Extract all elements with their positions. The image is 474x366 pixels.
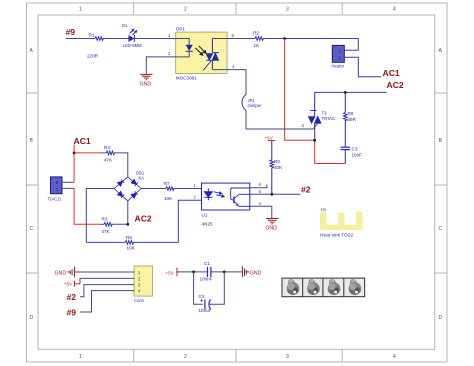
svg-text:KA: KA [139, 176, 145, 181]
wire R7 to U1 pin1 [173, 188, 208, 190]
svg-text:4: 4 [393, 7, 396, 13]
wire heater pin1 to AC1 [344, 57, 381, 76]
svg-text:T1: T1 [322, 111, 328, 116]
svg-text:B: B [439, 138, 443, 144]
connector Conn [134, 266, 152, 303]
wire conn pin3 to #2 [80, 285, 134, 297]
svg-text:Conn: Conn [134, 298, 145, 303]
svg-text:#9: #9 [66, 27, 76, 37]
svg-text:OP1: OP1 [176, 27, 186, 32]
svg-text:4N25: 4N25 [202, 222, 213, 227]
wire conn pin1 to GND [75, 271, 135, 273]
svg-text:C1: C1 [204, 261, 210, 266]
screw photo 3 [323, 278, 340, 297]
svg-text:GND: GND [250, 270, 262, 276]
svg-text:47K: 47K [102, 229, 111, 234]
svg-text:4: 4 [232, 64, 235, 69]
svg-text:H1: H1 [321, 207, 327, 212]
mounting screw photos block [282, 278, 365, 297]
connector T(AC1) [48, 177, 63, 202]
wire U1 pin4 to GND [250, 206, 272, 218]
svg-text:C3: C3 [352, 146, 358, 151]
OP1 internal triac [203, 39, 219, 71]
ground symbol at U1 pin4 [266, 219, 279, 224]
svg-text:C: C [30, 226, 34, 232]
junction R3/bridge [126, 223, 129, 226]
wire U1 pin6 stub [250, 185, 267, 188]
red wire AC2 down to R3 [74, 188, 100, 224]
svg-text:Heat sink TO22: Heat sink TO22 [320, 233, 353, 239]
resistor R4 47K [100, 145, 115, 163]
svg-text:R1: R1 [89, 32, 95, 37]
svg-text:39R: 39R [348, 117, 357, 122]
power +5V above R6 [265, 135, 276, 140]
svg-text:Jumper: Jumper [248, 103, 263, 108]
ground symbol sideways at C1 [242, 266, 249, 277]
op-amp U1 optocoupler 4N25 body [202, 183, 250, 226]
svg-text:100nF: 100nF [200, 276, 213, 281]
junction dot on R2 line [283, 37, 286, 40]
wire conn pin2 to +5V [80, 278, 134, 283]
svg-text:1K: 1K [254, 43, 261, 48]
svg-text:A: A [30, 48, 34, 54]
svg-text:3: 3 [286, 354, 289, 360]
ground symbol at OP1 pin2 [140, 74, 152, 79]
wire AC2 to triac top [315, 91, 387, 93]
svg-text:LED-5MM: LED-5MM [123, 43, 142, 48]
heater connector block [332, 45, 345, 68]
svg-text:1: 1 [168, 33, 171, 38]
svg-text:10nF: 10nF [352, 153, 363, 158]
wire LED to OP1 pin 1 [134, 39, 189, 45]
diode D1 LED-5MM [122, 23, 142, 48]
svg-text:220R: 220R [87, 54, 99, 59]
screw photo 1 [287, 279, 300, 295]
svg-text:4: 4 [259, 201, 262, 206]
svg-text:AC2: AC2 [135, 214, 152, 224]
op-amp U1 optocoupler OP1 MOC3061 body [176, 27, 227, 81]
OP1 internal LED [186, 45, 193, 52]
capacitor C1 100nF [200, 261, 213, 281]
svg-text:C: C [439, 226, 443, 232]
resistor R1 220R [87, 32, 103, 58]
power +5V at conn [64, 281, 80, 287]
svg-text:100uF: 100uF [199, 308, 212, 313]
svg-text:2: 2 [194, 195, 197, 200]
wire U1 pin5 to #2 [250, 193, 301, 195]
svg-text:#2: #2 [67, 292, 77, 302]
red wire AC1 down [73, 145, 75, 183]
OP1 coupling arrows [196, 46, 207, 55]
svg-text:AC1: AC1 [383, 68, 400, 78]
svg-text:6: 6 [232, 33, 235, 38]
wire T(AC1) pin2 [62, 181, 74, 183]
capacitor C3 10nF [341, 146, 363, 163]
svg-text:D: D [439, 315, 443, 321]
junction C1 left [192, 271, 195, 274]
svg-text:47K: 47K [104, 158, 113, 163]
svg-text:+5V: +5V [265, 135, 274, 140]
wire R4 to bridge top [114, 153, 128, 177]
ground symbol sideways at conn [67, 267, 74, 278]
wire conn pin4 to #9 [80, 291, 134, 312]
screw photo 4 [344, 278, 361, 297]
svg-text:3: 3 [286, 7, 289, 13]
svg-text:MOC3061: MOC3061 [176, 76, 197, 81]
svg-text:+5V: +5V [64, 282, 73, 287]
svg-text:D: D [30, 315, 34, 321]
junction R6/pin5 [270, 193, 273, 196]
svg-text:AC1: AC1 [74, 136, 91, 146]
svg-text:AC2: AC2 [387, 80, 404, 90]
svg-text:R8: R8 [348, 111, 354, 116]
svg-text:A: A [439, 48, 443, 54]
wire bridge left to R5 branch [86, 189, 114, 243]
capacitor C2 100uF polarized [199, 294, 212, 313]
svg-text:GND: GND [55, 271, 67, 277]
svg-text:R7: R7 [164, 181, 170, 186]
wire bridge bottom down [127, 201, 129, 224]
U1 coupling arrows [214, 192, 225, 198]
wire JP1 to triac gate [246, 111, 313, 130]
resistor R8 39R [343, 92, 356, 146]
junction C1 right [223, 271, 226, 274]
wire OP1 pin6 to R2 [212, 38, 255, 40]
svg-text:TRIAC: TRIAC [322, 116, 336, 121]
svg-text:T(AC1): T(AC1) [48, 197, 62, 202]
wire bridge right to R7 [141, 188, 166, 190]
svg-text:4: 4 [393, 354, 396, 360]
svg-text:6: 6 [259, 182, 262, 187]
svg-text:R3: R3 [102, 217, 108, 222]
svg-text:10K: 10K [127, 246, 136, 251]
wire OP1 pin4 to JP1 [212, 70, 246, 95]
red wire triac bottom to C3 [315, 140, 346, 163]
svg-text:GND: GND [140, 82, 152, 88]
U1 internal LED [204, 189, 212, 201]
svg-text:GND: GND [265, 225, 277, 231]
wire R5 up to U1 pin2 [178, 200, 201, 242]
wire R1 to LED D1 [103, 38, 129, 40]
svg-text:U1: U1 [202, 213, 208, 218]
svg-text:R4: R4 [104, 145, 110, 150]
svg-text:10K: 10K [164, 196, 173, 201]
svg-text:#2: #2 [301, 185, 311, 195]
resistor R6 10K [270, 141, 283, 195]
svg-text:1: 1 [79, 354, 82, 360]
wire #9 to R1 [66, 38, 95, 40]
svg-text:#9: #9 [67, 308, 77, 318]
svg-text:1: 1 [79, 7, 82, 13]
svg-text:3: 3 [302, 123, 305, 128]
svg-text:+5V: +5V [166, 270, 175, 275]
svg-text:Heater: Heater [332, 64, 345, 69]
svg-text:B: B [30, 138, 34, 144]
svg-text:10K: 10K [274, 165, 283, 170]
junction AC2/R8 [344, 91, 347, 94]
svg-text:2: 2 [184, 354, 187, 360]
resistor R2 1K [253, 30, 263, 48]
wire C2 loop [194, 272, 203, 304]
svg-text:D1: D1 [122, 23, 128, 28]
svg-text:2: 2 [184, 7, 187, 13]
jumper JP1 [242, 95, 262, 111]
heat sink H1 [320, 207, 363, 239]
junction triac bottom [313, 139, 316, 142]
resistor R3 47K [100, 217, 128, 235]
junction AC1/R4 [73, 152, 76, 155]
wire T(AC1) pin1 [62, 187, 74, 189]
red wire AC line vertical [285, 39, 315, 141]
svg-text:1: 1 [194, 183, 197, 188]
svg-text:2: 2 [168, 51, 171, 56]
screw photo 2 [303, 278, 320, 297]
wire OP1 pin 2 to GND [146, 51, 189, 74]
power +5V at C1 [166, 268, 177, 277]
svg-text:R2: R2 [253, 30, 259, 35]
svg-text:R6: R6 [274, 159, 280, 164]
svg-text:5: 5 [259, 189, 262, 194]
triac T1 [309, 92, 336, 140]
svg-text:+: + [200, 299, 203, 305]
resistor R5 10K [86, 235, 178, 250]
wire R2 to heater pin 2 [263, 38, 285, 40]
svg-text:R5: R5 [126, 235, 132, 240]
transistor phototransistor inside U1 [231, 188, 250, 206]
diode bridge DB1 KA [114, 177, 141, 201]
wire +5V rail [177, 271, 207, 273]
resistor R7 10K [164, 181, 175, 201]
red wire to R4 [74, 152, 100, 154]
